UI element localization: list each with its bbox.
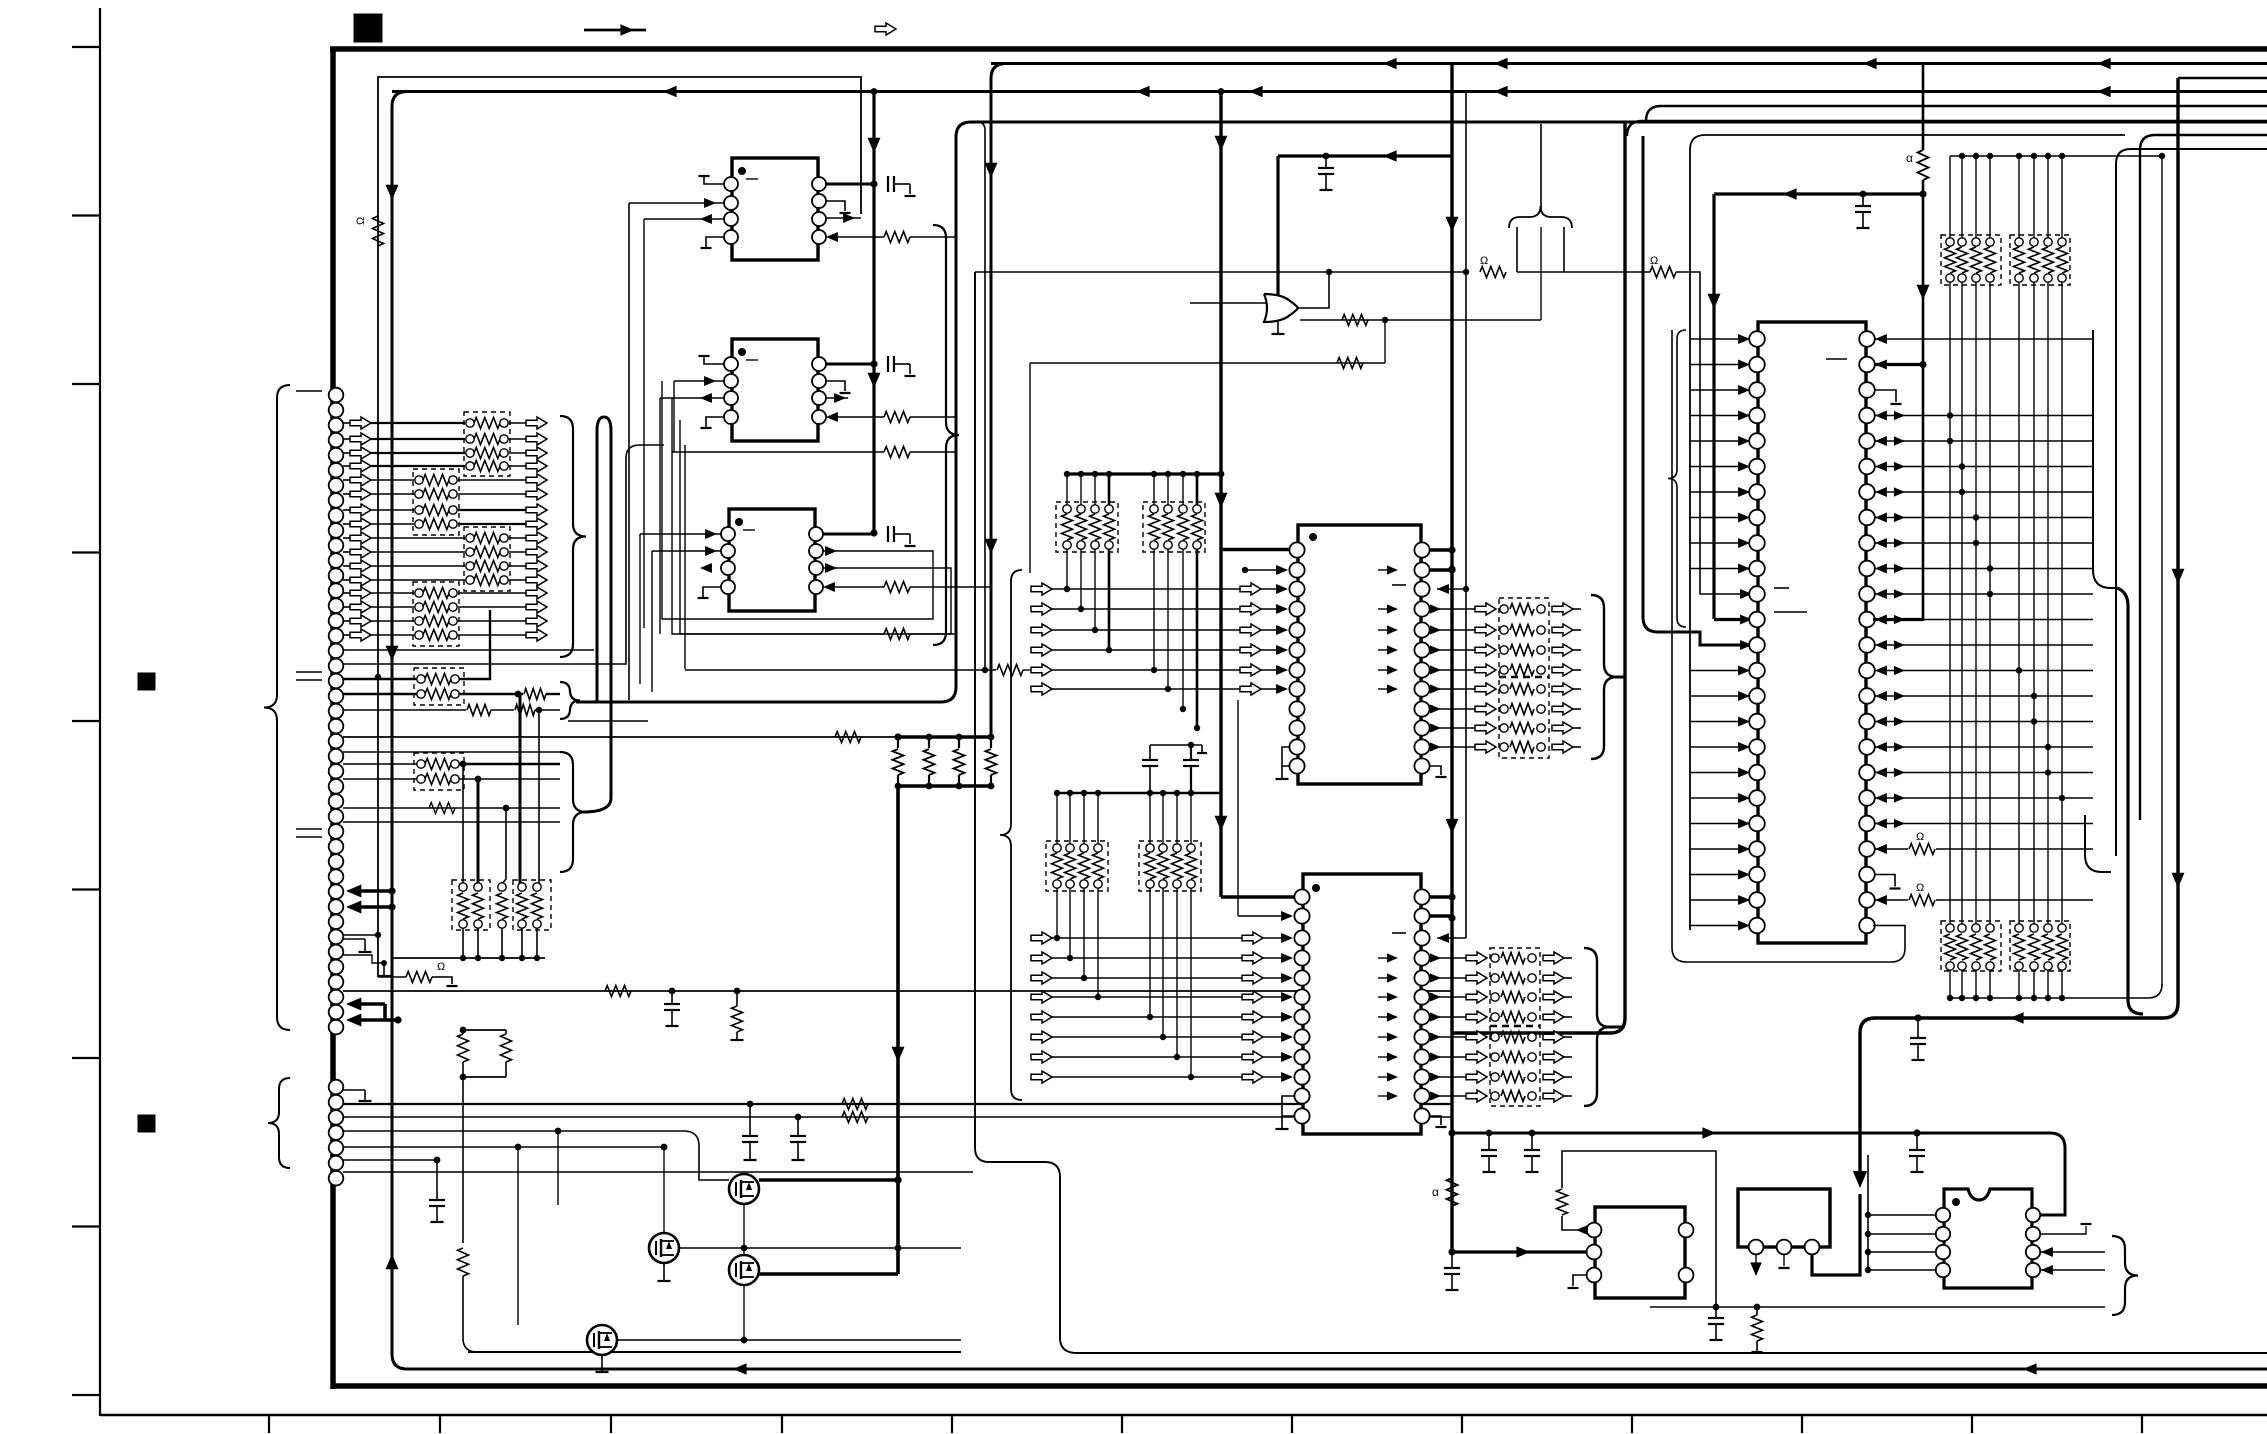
dashed resistor box — [1490, 948, 1540, 1106]
capacitor — [1715, 1307, 1717, 1318]
wire U6 output row — [1875, 363, 1923, 366]
wire connector row — [343, 620, 350, 622]
wire row710 — [343, 709, 466, 711]
IC U6 pin R — [1859, 765, 1875, 781]
arrow — [1875, 461, 1887, 471]
arrow inside IC — [1387, 684, 1398, 693]
junction — [894, 733, 901, 740]
open arrow — [1552, 683, 1573, 695]
arrow — [1875, 512, 1887, 522]
terminal — [1986, 274, 1994, 282]
terminal — [466, 449, 474, 457]
junction — [2031, 153, 2037, 159]
wire connector row — [343, 493, 350, 495]
resistor — [1945, 934, 1956, 960]
connector pin — [329, 448, 344, 463]
IC U8 box — [1738, 1189, 1830, 1247]
junction — [381, 960, 387, 966]
arrow into pin — [1740, 589, 1752, 599]
arrow down — [1750, 1262, 1762, 1276]
connector pin — [329, 463, 344, 478]
arrow into pin — [1738, 691, 1750, 701]
junction — [1865, 1231, 1871, 1237]
open arrow — [350, 546, 371, 558]
arrow — [1875, 538, 1887, 548]
page border ruler left — [99, 8, 101, 1416]
wire U6 input row — [1690, 721, 1743, 723]
terminal — [2030, 924, 2038, 932]
terminal — [1187, 880, 1195, 888]
pin1 dash — [743, 529, 755, 531]
terminal — [1986, 238, 1994, 246]
wire U5 pin3R in — [1437, 937, 1466, 939]
ruler tick bottom — [268, 1415, 270, 1433]
IC U5 pin R — [1414, 1108, 1429, 1123]
terminal — [1159, 844, 1167, 852]
terminal — [1528, 993, 1536, 1001]
transistor Q2 — [649, 1233, 679, 1263]
connector pin — [329, 734, 344, 749]
wire rail y998 — [1950, 984, 2162, 998]
arrow — [705, 529, 717, 539]
terminal — [1500, 666, 1508, 674]
wire IC U5 output row — [1430, 977, 1466, 979]
arrow down — [386, 185, 399, 200]
wire connector row — [343, 479, 350, 481]
wire cluster vertical — [1167, 474, 1169, 509]
arrow left — [1783, 188, 1797, 200]
connector pin — [329, 779, 344, 794]
arrow into pin — [1738, 334, 1750, 344]
resistor — [842, 1099, 868, 1110]
open arrow — [1543, 1071, 1564, 1083]
terminal — [1173, 844, 1181, 852]
terminal — [1537, 605, 1545, 613]
IC U6 pin L — [1749, 433, 1765, 449]
open arrow — [526, 574, 547, 586]
arrow into pin — [1738, 461, 1750, 471]
terminal — [1946, 238, 1954, 246]
pin1 marker — [738, 167, 746, 175]
IC U9 pin R — [2026, 1263, 2040, 1277]
terminal — [417, 675, 425, 683]
junction — [741, 1337, 748, 1344]
terminal — [498, 920, 506, 928]
terminal — [1094, 844, 1102, 852]
IC U5 pin L — [1294, 1029, 1309, 1044]
junction — [1973, 514, 1979, 520]
resistor — [2014, 934, 2025, 960]
wire U6 output row — [1875, 721, 2093, 723]
open arrow — [1031, 952, 1052, 964]
IC U8 pin — [1805, 1240, 1820, 1255]
wire U6 output row — [1875, 772, 2093, 774]
terminal — [2044, 962, 2052, 970]
arrow — [1430, 625, 1441, 634]
arrow down — [892, 1047, 905, 1062]
junction — [1947, 438, 1953, 444]
wire IC U5 output row — [1430, 957, 1466, 959]
IC2 pin L3 — [724, 391, 738, 405]
terminal — [415, 603, 423, 611]
arrow inside IC — [1387, 565, 1398, 574]
terminal — [466, 435, 474, 443]
wire — [1961, 970, 1963, 998]
ruler tick bottom — [781, 1415, 783, 1433]
connector pin — [329, 960, 344, 975]
IC U9 box with notch — [1944, 1189, 2032, 1288]
arrow — [1875, 844, 1887, 854]
IC U6 pin R — [1859, 637, 1875, 653]
open arrow — [1242, 1031, 1263, 1043]
wire thick y194 — [1714, 192, 1923, 195]
resistor — [990, 737, 992, 748]
brace U6 left — [1668, 330, 1686, 627]
terminal — [451, 675, 459, 683]
wire U6 input row — [1690, 389, 1743, 391]
open arrow — [350, 629, 371, 641]
wire vert x463 — [462, 764, 464, 884]
connector pin — [329, 869, 344, 884]
IC U6 pin R — [1859, 867, 1875, 883]
resistor — [425, 774, 451, 785]
resistor — [1172, 853, 1183, 879]
arrow left — [2023, 1363, 2037, 1375]
junction — [1106, 471, 1112, 477]
terminal — [415, 506, 423, 514]
IC3 R2 loop — [662, 381, 933, 619]
wire x1452 junction to IC A — [1448, 1248, 1455, 1255]
arrow — [1430, 723, 1441, 732]
arrow into pin — [1281, 1032, 1293, 1042]
terminal — [1491, 1013, 1499, 1021]
resistor pair loop — [463, 1029, 506, 1031]
terminal — [1091, 505, 1099, 513]
junction — [741, 1245, 748, 1252]
IC U6 pin L — [1749, 408, 1765, 424]
terminal — [1491, 974, 1499, 982]
arrow — [2041, 1265, 2053, 1275]
IC U9 pin R — [2026, 1227, 2040, 1241]
legend marker square B — [138, 1115, 155, 1132]
terminal — [1528, 974, 1536, 982]
resistor — [1149, 514, 1160, 540]
wire U6 output row — [1875, 670, 2093, 672]
resistor — [517, 893, 528, 919]
wire — [501, 928, 503, 958]
wire U6 input row — [1690, 466, 1743, 468]
junction — [1160, 1034, 1166, 1040]
junction — [988, 783, 995, 790]
IC1 pin3 output wire — [644, 218, 724, 220]
connector pin — [329, 478, 344, 493]
junction — [1092, 471, 1098, 477]
resistor — [884, 232, 910, 243]
junction — [1188, 1074, 1194, 1080]
terminal — [415, 520, 423, 528]
ground — [1281, 1116, 1283, 1129]
resistor — [897, 737, 899, 748]
ruler tick bottom — [951, 1415, 953, 1433]
connector pin — [329, 388, 344, 403]
legend black square — [354, 14, 382, 42]
junction — [894, 1176, 902, 1184]
resistor — [474, 418, 500, 429]
bus line y92 — [392, 90, 2267, 93]
wire x1517 up to brace — [1516, 227, 1518, 272]
wire U9 left feeds — [1867, 1155, 1869, 1270]
IC2 pin L4 — [724, 410, 738, 424]
open arrow — [350, 433, 371, 445]
arrow into pin — [1738, 410, 1750, 420]
IC U9 pin1 marker — [1952, 1198, 1960, 1206]
connector pin — [329, 583, 344, 598]
wire IC U4 output row — [1430, 669, 1475, 671]
terminal — [500, 419, 508, 427]
wire cluster vertical — [1975, 156, 1977, 242]
resistor — [1480, 267, 1506, 278]
connector pin — [329, 930, 344, 945]
arrow — [826, 232, 838, 242]
wire row939 gnd — [343, 938, 365, 940]
junction — [1486, 1130, 1493, 1137]
resistor — [1918, 150, 1929, 180]
junction — [2016, 153, 2022, 159]
wire IC U4 input row — [1052, 588, 1286, 590]
terminal — [1500, 626, 1508, 634]
wire rail y156 — [1950, 155, 2162, 157]
terminal — [1537, 666, 1545, 674]
terminal — [466, 576, 474, 584]
svg-text:Ω: Ω — [1480, 255, 1488, 267]
wire bus P4 x1221 — [1219, 92, 1222, 898]
connector pin — [329, 914, 344, 929]
terminal — [1958, 924, 1966, 932]
bus line y63 — [991, 62, 2267, 65]
wire connector row — [343, 592, 350, 594]
dashed resistor box — [413, 469, 459, 535]
arrow — [1894, 436, 1905, 445]
IC1 pin1 ground — [704, 176, 724, 184]
junction — [534, 955, 540, 961]
open arrow — [1031, 1011, 1052, 1023]
terminal — [1063, 505, 1071, 513]
junction — [2016, 667, 2022, 673]
wire U6 input row — [1690, 848, 1743, 850]
wire U6 left rail — [1690, 135, 2125, 930]
arrow into pin — [1738, 487, 1750, 497]
wire U9 pin4R — [2041, 1269, 2105, 1271]
IC1 R1 wire cap — [826, 183, 874, 186]
resistor — [1985, 934, 1996, 960]
IC U4 pin R — [1414, 681, 1429, 696]
connector pin — [329, 945, 344, 960]
connector brace lower — [268, 1078, 290, 1168]
terminal — [2044, 924, 2052, 932]
arrow — [700, 393, 712, 403]
junction — [895, 734, 902, 741]
wire x985 from top — [977, 122, 985, 670]
IC3 pin R1 — [809, 527, 823, 541]
bus line y121 right — [1627, 121, 2267, 136]
IC U4 pin L — [1289, 562, 1304, 577]
junction — [1064, 586, 1070, 592]
junction — [1147, 1014, 1153, 1020]
junction — [1973, 540, 1979, 546]
wire vert x506 — [505, 808, 507, 879]
wire U6 output row — [1875, 848, 1908, 850]
IC U6 pin L — [1749, 688, 1765, 704]
junction — [895, 783, 902, 790]
wire bus P2 inner thin border — [378, 77, 861, 250]
arrow — [1430, 742, 1441, 751]
wire connector row — [343, 634, 350, 636]
terminal — [2030, 274, 2038, 282]
resistor — [406, 972, 432, 983]
wire bus P9 x2178 — [1860, 78, 2178, 1180]
junction — [515, 1144, 522, 1151]
wire loop vertical — [679, 420, 681, 634]
terminal — [1491, 1033, 1499, 1041]
connector pin — [329, 809, 344, 824]
resistor — [884, 582, 910, 593]
open arrow — [1242, 952, 1263, 964]
IC U8 pin — [1749, 1240, 1764, 1255]
terminal — [2015, 962, 2023, 970]
resistor — [423, 630, 449, 641]
junction — [2059, 153, 2065, 159]
wire U6 output row — [1875, 338, 2093, 340]
arrow — [1875, 563, 1887, 573]
IC U5 label dash — [1392, 932, 1406, 934]
IC2 pin3 wire — [660, 397, 724, 399]
wire x1385 down — [1384, 320, 1386, 363]
legend open arrow — [875, 23, 896, 35]
wire row664 loop — [343, 445, 664, 664]
IC1 pin4 ground — [706, 237, 724, 248]
resistor — [474, 448, 500, 459]
terminal — [500, 576, 508, 584]
resistor — [884, 412, 910, 423]
resistor — [423, 616, 449, 627]
wire vert x478 — [477, 779, 480, 884]
bus arrow — [663, 86, 677, 98]
resistor — [835, 732, 861, 743]
terminal — [417, 690, 425, 698]
arrow — [1430, 645, 1441, 654]
junction — [1054, 935, 1060, 941]
arrow inside IC U5 — [1387, 1012, 1398, 1021]
wire U9 pin3R — [2041, 1251, 2105, 1253]
resistor — [1510, 704, 1534, 715]
junction — [1987, 153, 1993, 159]
connector pin — [329, 1141, 344, 1156]
terminal — [500, 562, 508, 570]
open arrow — [1475, 722, 1496, 734]
junction — [1165, 471, 1171, 477]
wire row978 resistor gnd — [378, 976, 406, 978]
terminal — [449, 490, 457, 498]
dashed resistor box — [464, 412, 510, 476]
IC1 pin2 input wire — [629, 202, 724, 204]
junction — [988, 734, 995, 741]
terminal — [1146, 844, 1154, 852]
wire — [505, 1062, 507, 1077]
wire bus left x392 — [392, 92, 2267, 1370]
terminal — [1946, 924, 1954, 932]
resistor — [1093, 853, 1104, 879]
IC2 R1 wire cap — [826, 363, 874, 366]
dashed resistor box — [1499, 598, 1549, 758]
open arrow — [1466, 1090, 1487, 1102]
junction — [1959, 489, 1965, 495]
wire IC U5 output row — [1430, 1036, 1466, 1038]
arrow inside IC — [1387, 645, 1398, 654]
dashed resistor box — [1056, 502, 1118, 552]
brace U6 rows group2 — [2085, 815, 2111, 872]
wire — [1868, 1233, 1936, 1235]
wire IC U5 output row — [1430, 1016, 1466, 1018]
terminal — [2044, 274, 2052, 282]
resistor — [884, 447, 910, 458]
terminal — [1946, 274, 1954, 282]
IC U6 pin L — [1749, 918, 1765, 934]
ground — [364, 939, 366, 952]
wire row737 long — [343, 736, 898, 738]
wire — [462, 1030, 464, 1034]
wire cluster vertical — [1056, 793, 1058, 848]
IC U9 pin R — [2026, 1208, 2040, 1222]
capacitor — [1190, 745, 1192, 760]
junction — [1865, 1212, 1871, 1218]
terminal — [415, 617, 423, 625]
IC2 pin R4 — [812, 410, 826, 424]
junction — [1987, 591, 1993, 597]
resistor — [1065, 853, 1076, 879]
open arrow — [350, 574, 371, 586]
junction — [956, 734, 963, 741]
wire thick arrow stem — [352, 905, 392, 909]
wire — [2033, 970, 2035, 998]
arrow — [1894, 691, 1905, 700]
terminal — [459, 920, 467, 928]
junction — [460, 1027, 467, 1034]
arrow — [1894, 768, 1905, 777]
terminal — [1986, 924, 1994, 932]
resistor — [1192, 514, 1203, 540]
wire U6 output row — [1875, 695, 2093, 697]
arrow — [1430, 1012, 1441, 1021]
IC U6 pin R — [1859, 612, 1875, 628]
wire y272 right segment — [1517, 271, 1650, 273]
arrow down — [2172, 873, 2185, 888]
terminal — [1173, 880, 1181, 888]
arrow — [1875, 716, 1887, 726]
junction — [2045, 153, 2051, 159]
wire x2162 down — [2161, 156, 2163, 986]
open arrow — [350, 460, 371, 472]
junction — [1865, 1267, 1871, 1273]
open arrow — [350, 518, 371, 530]
resistor — [474, 575, 500, 586]
capacitor x1917 — [1916, 1133, 1918, 1150]
arrow — [1875, 640, 1887, 650]
junction — [1947, 995, 1953, 1001]
wire IC U5 output row — [1430, 1076, 1466, 1078]
wire bus P3 left vertical x991 — [991, 64, 1006, 738]
connector pin — [329, 794, 344, 809]
junction — [661, 1144, 668, 1151]
